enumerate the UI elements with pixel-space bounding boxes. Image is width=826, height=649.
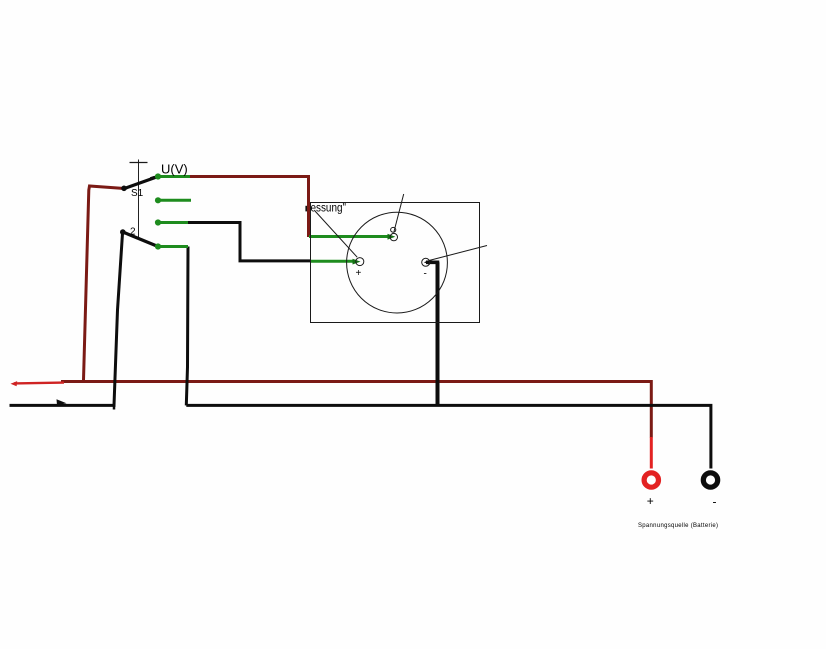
svg-text:+: + (647, 494, 654, 508)
svg-text:+: + (356, 268, 362, 279)
svg-text:-: - (713, 495, 717, 509)
svg-text:S1: S1 (131, 188, 144, 199)
svg-text:U(V): U(V) (161, 162, 188, 177)
svg-text:-: - (424, 269, 427, 280)
svg-text:2: 2 (130, 227, 136, 238)
svg-text:essung": essung" (311, 201, 347, 215)
svg-text:Spannungsquelle (Batterie): Spannungsquelle (Batterie) (638, 523, 718, 529)
